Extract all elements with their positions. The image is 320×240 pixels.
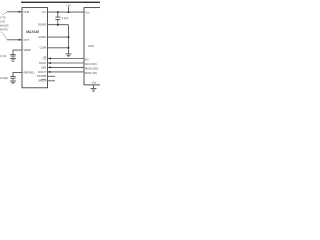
- wire REFADJ: [13, 72, 22, 76]
- svg-text:AGND: AGND: [38, 35, 46, 39]
- ground VREF: [10, 58, 16, 60]
- node +3V: [68, 11, 70, 13]
- dashed lead to CH7: [2, 32, 7, 40]
- wire DGND: [48, 24, 69, 26]
- svg-text:I/O: I/O: [85, 58, 89, 62]
- svg-text:VREF: VREF: [24, 48, 32, 52]
- ground rail symbol: [66, 53, 72, 55]
- capacitor C3 0.01uF plates: [10, 76, 15, 78]
- svg-text:0.01µF: 0.01µF: [0, 76, 8, 80]
- svg-text:INPUTS: INPUTS: [0, 29, 8, 32]
- wire CS: [48, 58, 85, 60]
- ground rail vertical: [68, 25, 70, 54]
- node C1 bottom: [57, 24, 59, 26]
- IC U1 MAX148 body: [22, 8, 48, 88]
- +3V supply riser: [68, 7, 70, 12]
- svg-text:CPU: CPU: [88, 44, 94, 48]
- top rule: [21, 1, 100, 3]
- stub SHDN: [48, 80, 56, 82]
- wire CH7 input: [7, 39, 22, 41]
- CPU box: [84, 8, 102, 85]
- wire COM: [48, 47, 69, 49]
- stub SSTRB: [48, 75, 56, 77]
- pin CS overline: [44, 56, 47, 58]
- arrowhead SCLK: [48, 62, 51, 64]
- svg-text:SCK (SK): SCK (SK): [85, 62, 97, 66]
- pin SHDN overline: [41, 78, 47, 80]
- svg-text:DGND: DGND: [38, 23, 46, 27]
- node C1 top: [57, 11, 59, 13]
- svg-text:REFADJ: REFADJ: [24, 70, 35, 74]
- capacitor C1 0.1uF: [57, 12, 59, 17]
- svg-text:DIN: DIN: [41, 65, 46, 69]
- svg-text:0.1µF: 0.1µF: [62, 16, 69, 20]
- arrowhead CH0: [19, 11, 22, 13]
- svg-text:MAX148: MAX148: [26, 30, 39, 34]
- svg-text:MOSI (SO): MOSI (SO): [85, 67, 98, 71]
- wire AGND: [48, 36, 69, 38]
- arrowhead DIN: [48, 66, 51, 68]
- node AGND rail: [68, 36, 70, 38]
- svg-text:MISO (SI): MISO (SI): [85, 71, 97, 75]
- wire DIN: [48, 66, 85, 68]
- svg-text:CH0: CH0: [24, 10, 30, 14]
- svg-text:SCLK: SCLK: [39, 61, 47, 65]
- svg-text:0V TO: 0V TO: [0, 17, 6, 20]
- svg-text:CH7: CH7: [24, 38, 30, 42]
- svg-text:+2.5V: +2.5V: [0, 21, 6, 24]
- wire CPU VSS to ground: [93, 85, 95, 89]
- arrowhead DOUT: [49, 71, 52, 73]
- wire DOUT: [48, 71, 85, 73]
- wire VDD to CPU: [48, 11, 85, 13]
- svg-text:+3V: +3V: [66, 4, 71, 8]
- ground REFADJ: [10, 80, 16, 82]
- capacitor C2 4.7uF plates: [10, 53, 15, 55]
- node COM rail: [68, 47, 70, 49]
- wire CH0 input: [7, 11, 22, 13]
- svg-text:DOUT: DOUT: [38, 70, 46, 74]
- wire C2 to ground: [12, 56, 14, 58]
- wire SCLK: [48, 62, 85, 64]
- wire C3 to ground: [12, 78, 14, 81]
- wire VREF: [13, 50, 22, 54]
- dashed lead to CH0: [2, 12, 7, 15]
- ground CPU VSS: [91, 88, 97, 90]
- svg-text:COM: COM: [40, 46, 47, 50]
- svg-text:ANALOG: ANALOG: [0, 25, 9, 28]
- arrowhead CH7: [19, 39, 22, 41]
- svg-text:SSTRB: SSTRB: [37, 74, 47, 78]
- arrowhead CS: [48, 57, 51, 59]
- svg-text:4.7µF: 4.7µF: [0, 54, 7, 58]
